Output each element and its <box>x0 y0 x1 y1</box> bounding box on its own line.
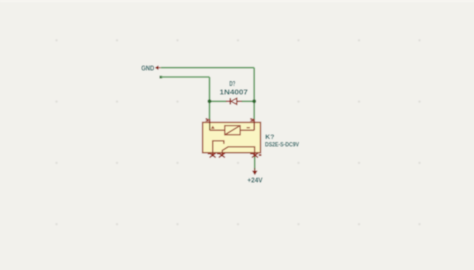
wire second horizontal <box>161 76 210 78</box>
power port GND <box>141 65 160 72</box>
junction left <box>208 99 212 103</box>
wire left vertical <box>209 77 211 119</box>
relay K? DS2E-S-DC9V <box>203 118 300 157</box>
wire to +24V <box>254 157 256 170</box>
wire diode left <box>210 100 227 102</box>
svg-text:DS2E-S-DC9V: DS2E-S-DC9V <box>265 141 300 148</box>
pin common stub <box>221 153 223 157</box>
wire diode right <box>242 100 255 102</box>
pin 1 number <box>205 118 209 121</box>
pin 2 (anode lead) <box>237 100 242 102</box>
svg-text:GND: GND <box>141 65 154 72</box>
anode triangle <box>231 98 237 104</box>
body <box>203 122 261 152</box>
NC contact hook <box>213 141 224 153</box>
coil right lead <box>240 129 254 131</box>
junction right <box>252 99 256 103</box>
plus mark <box>211 126 215 129</box>
pin 4 stub <box>212 153 214 157</box>
pin 1 <box>209 119 211 130</box>
no-connect X common pin <box>217 153 225 158</box>
pin 1 (cathode lead) <box>226 100 230 102</box>
armature / common contact <box>222 147 254 153</box>
svg-text:+24V: +24V <box>247 175 262 184</box>
pin 2 <box>253 119 255 130</box>
minus mark <box>247 127 250 129</box>
coil diagonal <box>225 126 240 135</box>
coil box <box>225 126 240 135</box>
diode D? 1N4007 <box>220 81 248 104</box>
coil left lead <box>210 129 225 131</box>
wire right vertical <box>253 68 255 119</box>
cathode bar <box>229 98 231 104</box>
wire GND horizontal <box>161 67 254 69</box>
no-connect X pin 3 <box>250 153 261 158</box>
svg-text:1N4007: 1N4007 <box>220 87 248 96</box>
no-connect X pin 4 <box>208 153 216 158</box>
pin 3 stub <box>254 153 256 158</box>
svg-text:K?: K? <box>265 134 274 141</box>
pin 2 number <box>250 118 254 121</box>
power port +24V <box>247 168 262 184</box>
wire end square <box>160 76 163 79</box>
